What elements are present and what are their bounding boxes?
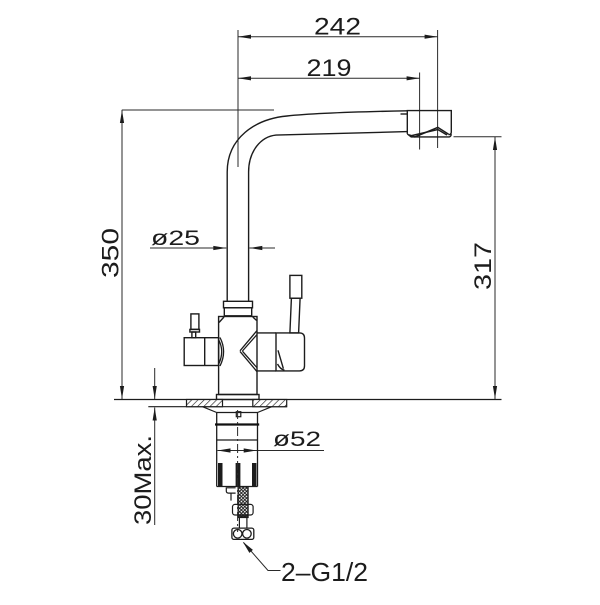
spout head outline [407,111,451,135]
arrow left of 219 [238,76,251,80]
collar [190,329,200,332]
stud bottom cap [238,515,248,517]
right wedge cone lines [240,331,257,372]
sensor tab box [226,488,235,501]
knob [290,275,302,298]
arrow right of 219 [407,76,420,80]
arrow down 350 [120,386,124,399]
extension line top of faucet [122,109,274,111]
spout bottom edge with inner bend into riser right edge [249,132,408,302]
riser collar [224,301,253,316]
handle cylinder rounded rect [276,333,305,371]
arrow pointing right at shank right wall [244,448,257,452]
left handle cylinder [184,338,218,366]
centerline dashed [237,410,239,532]
arrow up 317 [493,137,497,150]
dim line 219 [238,77,420,79]
knob [191,314,199,330]
right lever [290,275,302,333]
body outline [219,317,257,395]
upper leg above deck [154,368,156,399]
head seam left [401,113,408,115]
arrow pointing left at pipe right [249,246,262,250]
svg-text:2–G1/2: 2–G1/2 [281,557,368,587]
deck top long line [114,399,502,401]
spout head bottom line [407,134,451,137]
svg-text:317: 317 [470,242,497,290]
dim line left segment [150,247,226,249]
spray face double lines [409,127,449,137]
coupling circle right [243,530,252,539]
dim line 317 vertical [494,137,496,399]
svg-text:ø25: ø25 [151,227,200,250]
threaded stud (knurled) [238,487,248,518]
svg-text:ø52: ø52 [273,428,321,451]
lower stem [239,518,247,529]
neck [290,298,300,333]
neck [192,332,196,338]
center pin [236,412,241,417]
collar lower box [224,308,251,316]
arrow up to flange underside [153,408,157,421]
svg-text:242: 242 [314,14,361,41]
arrow down 317 [493,386,497,399]
extension line from spout outlet [454,136,502,138]
pin wire [230,493,232,501]
dim line right segment [249,247,275,249]
extension line left x238 [237,30,239,167]
arrow right of 242 [425,35,438,39]
lower leg below flange [154,408,156,526]
top-left chamfer [219,317,224,323]
shank slots/prongs [218,463,256,487]
arrow up 350 [120,110,124,123]
leader line [244,543,281,571]
extension line right x419.6 [419,73,421,150]
hatched plate right [253,400,287,407]
coupling circle left [233,530,242,539]
top-right chamfer [253,317,257,321]
svg-text:219: 219 [307,55,352,82]
mounting trapezoid under deck [203,407,272,417]
dim line 242 [238,36,438,38]
deck bottom line [148,406,286,408]
bottom edge [217,486,258,488]
main valve body [217,317,260,400]
dim line across shank extending right [218,450,325,452]
arrow left of 242 [238,35,251,39]
arrow pointing left at shank left wall [218,448,231,452]
mounting nut [233,504,254,515]
arrow down to deck [153,386,157,399]
slanted seam [278,350,283,368]
hatched plate left [187,400,223,407]
left throat cone arcs [219,338,224,367]
svg-text:350: 350 [98,228,125,278]
svg-text:30Max.: 30Max. [130,435,157,525]
dim line 350 vertical [121,110,123,399]
right handle base [257,333,305,371]
counter deck [114,400,502,407]
extension line right x437.6 [437,30,439,148]
connecting piece [257,332,276,334]
shank cylinder [217,413,258,487]
seam arc [278,364,285,370]
o-ring gasket [215,423,259,425]
cap divider [204,338,206,366]
left lever [190,314,200,338]
base flange block [217,395,260,400]
arrow pointing right at pipe left [213,246,226,250]
seam [217,439,258,441]
leader arrowhead [243,542,253,553]
collar upper box [224,301,253,308]
hose coupling block [232,528,254,539]
spout top edge with bend into riser left edge [227,111,407,301]
